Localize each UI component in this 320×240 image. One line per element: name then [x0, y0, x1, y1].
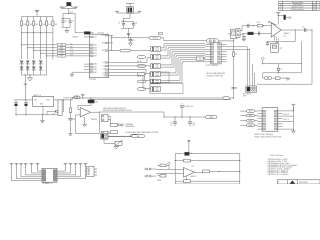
power flag U4 supply — [276, 11, 280, 13]
wire box riser 4 — [254, 73, 256, 86]
pin U1 right D2 — [109, 69, 114, 71]
wire U2 out riser 1 — [227, 47, 248, 86]
pin U6 right 9 — [278, 128, 283, 130]
power flag VCC top-left — [35, 9, 39, 11]
svg-text:10K: 10K — [48, 24, 51, 26]
resistor R4 10K — [40, 21, 42, 26]
ground U1 — [72, 72, 84, 74]
wire mid rail 1 — [263, 63, 302, 65]
wire crystal box top rail — [267, 40, 295, 42]
pin U2 right 11 — [221, 48, 227, 50]
power flag bottom-left 3 — [19, 162, 23, 164]
pin U1 right D1 — [109, 65, 114, 67]
wire net RXD to U1 — [27, 47, 28, 48]
pin U6 right 10 — [278, 126, 283, 128]
pin U2 left 4 — [205, 51, 211, 53]
IC U5 body — [42, 168, 57, 182]
pin U1 right OSC — [109, 50, 114, 52]
ground RV1 — [114, 147, 118, 149]
svg-text:RXD: RXD — [94, 47, 97, 49]
wire U7 feedback loop — [91, 111, 100, 113]
wire cap top rail — [61, 18, 70, 20]
resistor R14 — [184, 159, 191, 162]
svg-text:C4: C4 — [135, 22, 137, 24]
svg-text:CB0: CB0 — [94, 64, 97, 66]
svg-text:5V_REF: 5V_REF — [73, 96, 79, 98]
svg-text:D7: D7 — [53, 114, 55, 116]
svg-text:EXT OSC IN: EXT OSC IN — [243, 93, 251, 95]
pin U6 right 12 — [278, 120, 283, 122]
wire lower rail — [90, 99, 231, 101]
node label oval OSC — [120, 49, 131, 52]
title block bar — [277, 180, 320, 184]
svg-text:C5: C5 — [133, 40, 135, 42]
svg-text:9/07: 9/07 — [313, 9, 316, 11]
node label RXD — [58, 47, 66, 49]
wire R8 down — [233, 56, 235, 87]
pin U6 left 6 — [258, 123, 263, 125]
crystal Y2 OPT — [271, 43, 279, 52]
capacitor C1 100n — [62, 19, 64, 21]
wire column 3 — [33, 17, 35, 60]
wire U3 output — [195, 171, 203, 173]
svg-text:Revision Notes: Revision Notes — [292, 1, 304, 4]
wire FB2 stem down — [129, 13, 131, 18]
svg-text:10K: 10K — [29, 24, 32, 26]
svg-text:CTS: CTS — [94, 53, 97, 55]
svg-text:1K: 1K — [235, 54, 237, 56]
pin U1 left RTS — [84, 50, 89, 52]
ground C9 — [242, 39, 245, 41]
capacitor C9 to ground — [243, 33, 245, 36]
IC U8 regulator body — [33, 97, 54, 107]
wire riser 2 to U2 — [161, 46, 167, 50]
svg-text:U4: U4 — [284, 36, 286, 38]
pin U1 left CB3 — [84, 71, 89, 73]
svg-text:D5: D5 — [281, 69, 283, 71]
capacitor C14 polarized — [15, 100, 17, 103]
node label U2 left oval — [197, 57, 204, 60]
resistor R10 — [271, 77, 275, 79]
svg-text:CB2: CB2 — [94, 69, 97, 71]
power flag bottom-left 5 — [30, 162, 34, 164]
svg-text:RXD: RXD — [70, 46, 73, 48]
node label VCCIO oval — [149, 37, 161, 40]
svg-text:4/07: 4/07 — [313, 4, 316, 6]
wire output to frame right — [210, 170, 240, 172]
wire column 6 — [52, 17, 54, 60]
wire flag right 2 to U5 — [57, 164, 71, 173]
svg-text:OPT: OPT — [279, 48, 282, 50]
svg-text:10K: 10K — [35, 24, 38, 26]
wire R11 down — [70, 113, 72, 119]
wire flag right 4 to U5 — [57, 164, 80, 177]
pin U2 right 13 — [221, 53, 227, 55]
svg-text:SW_B: SW_B — [137, 76, 141, 78]
ferrite bead FB1 — [67, 2, 71, 5]
capacitor C13 — [276, 41, 278, 42]
logo mark — [290, 181, 296, 184]
svg-text:DNP: DNP — [243, 95, 246, 97]
diode D3 ESD pair — [32, 61, 36, 64]
ground filter caps — [66, 27, 68, 30]
capacitor C17 above rail — [181, 107, 183, 117]
resistor R11 — [69, 108, 71, 113]
pin U2 right 12 — [221, 51, 227, 53]
switch S5 — [151, 79, 161, 84]
resistor R1 10K — [21, 21, 23, 26]
connector J6 block — [87, 166, 95, 176]
ground C10 — [289, 16, 292, 19]
wire riser 8 to U2 — [161, 58, 179, 75]
wire U1 D0 to S2 — [113, 58, 151, 63]
svg-text:C19: C19 — [192, 123, 195, 125]
wire jumper to crystal chain — [219, 40, 234, 42]
power flag left of FB2 — [115, 10, 119, 12]
svg-text:FB4: FB4 — [95, 101, 98, 103]
svg-text:EN: EN — [199, 58, 201, 60]
pin U6 left 7 — [258, 126, 263, 128]
svg-text:R9 1K: R9 1K — [257, 22, 261, 24]
svg-text:REFERENCE: REFERENCE — [126, 126, 135, 128]
svg-text:VOUT_B: VOUT_B — [283, 119, 289, 121]
power flag U6 — [291, 103, 295, 105]
svg-text:U3: U3 — [192, 166, 194, 168]
node label oval SW5 — [138, 80, 146, 83]
pin U1 left CTS — [84, 52, 89, 54]
capacitor C11 on output — [304, 28, 306, 32]
pin U6 left 3 — [258, 115, 263, 117]
wire riser 5 to U2 — [161, 52, 173, 65]
svg-text:5V_REF_OUT: 5V_REF_OUT — [184, 106, 193, 108]
wire output right branch down — [311, 30, 313, 84]
svg-text:USBDM: USBDM — [73, 37, 79, 39]
capacitor C4 — [133, 21, 135, 23]
power flag bottom-right 3 — [74, 162, 78, 164]
node label oval in3 — [247, 119, 255, 122]
wire U6 in 3 — [240, 120, 257, 122]
pin U6 left 1 — [258, 110, 263, 112]
pin U6 right 16 — [278, 110, 283, 112]
svg-text:CTS#: CTS# — [70, 52, 74, 54]
wire U2 out riser 2 — [227, 49, 250, 86]
pin U1 left CB2 — [84, 69, 89, 71]
resistor R3 10K — [33, 21, 35, 26]
pin U2 left 6 — [205, 56, 211, 58]
pin U6 left 8 — [258, 128, 263, 130]
svg-text:C1: C1 — [65, 21, 67, 23]
connector J3 audio jack — [236, 29, 240, 38]
wire U1 D4 to S6 — [113, 75, 151, 88]
svg-text:C3: C3 — [118, 22, 120, 24]
switch S3 — [151, 64, 161, 69]
wire VCC branch to U1 — [74, 14, 76, 33]
wire riser 1 to U2 — [161, 44, 165, 48]
ground regulator — [41, 115, 43, 121]
node label oval J7 — [132, 135, 145, 138]
wire caps top rail — [121, 20, 134, 22]
switch S1 — [151, 47, 161, 52]
pin U1 left DTR — [84, 55, 89, 57]
svg-text:6/07: 6/07 — [313, 7, 316, 9]
power flag bottom-right 4 — [79, 162, 83, 164]
svg-text:DTR#: DTR# — [70, 54, 74, 56]
wire top-left bus — [22, 16, 53, 18]
wire riser 4 to U2 — [161, 50, 171, 58]
pin U2 right 15 — [221, 58, 227, 60]
wire VREF rail — [164, 116, 206, 118]
pin U2 right 10 — [221, 46, 227, 48]
diode D4 ESD pair — [39, 61, 43, 64]
svg-text:DTR: DTR — [94, 56, 97, 58]
capacitor C12 — [267, 41, 269, 42]
ferrite bead FB4 — [90, 97, 91, 98]
node label oval SW6 — [138, 88, 146, 91]
pin U6 right 13 — [278, 118, 283, 120]
svg-text:10K: 10K — [42, 24, 45, 26]
wire flag right 5 to U5 — [57, 164, 86, 179]
power flag bottom-right 2 — [69, 162, 73, 164]
wire loop switch5 — [150, 72, 169, 82]
svg-text:CB1: CB1 — [94, 66, 97, 68]
svg-text:DTR#: DTR# — [60, 56, 64, 58]
svg-text:C16: C16 — [73, 119, 76, 121]
wire FB2 bar — [117, 12, 140, 14]
wire bottom rail — [175, 180, 240, 182]
wire U1 D1 to S3 — [113, 65, 151, 67]
ground ESD array — [29, 75, 31, 78]
svg-text:3V3: 3V3 — [94, 37, 97, 39]
resistor R15 — [203, 170, 210, 173]
LED D6 — [262, 73, 264, 78]
pin U2 right 14 — [221, 56, 227, 58]
wire column 2 — [27, 17, 29, 60]
wire U6 out B — [282, 120, 293, 122]
wire net TXD to U1 — [21, 44, 22, 45]
wire U1 D3 to S5 — [113, 73, 151, 81]
wire U6 in 1 — [240, 110, 257, 112]
node label output oval — [71, 97, 74, 100]
node label TXD — [58, 44, 66, 46]
connector J7 input jack — [101, 133, 108, 139]
IC U2 body — [211, 43, 221, 64]
wire flag right 3 to U5 — [57, 164, 76, 175]
resistor R12 — [110, 124, 117, 127]
power flag 5V mid — [81, 93, 85, 95]
wire VCCIO rail — [111, 37, 149, 39]
wire U3 noninverting to bottom rail — [186, 176, 188, 181]
node diamond — [261, 57, 264, 60]
wire U6 gnd — [282, 128, 293, 130]
IC U6 body — [262, 108, 278, 132]
resistor R16 — [184, 180, 191, 183]
ground U6 — [292, 129, 294, 131]
svg-text:OSC: OSC — [102, 50, 105, 52]
pin U1 right RST — [109, 42, 114, 44]
capacitor C20 on frame top — [185, 152, 190, 155]
pin U6 right 11 — [278, 123, 283, 125]
wire bottom-right return — [257, 83, 312, 85]
wire U6 in 4 — [240, 124, 257, 126]
wire riser 9 to U2 — [161, 60, 181, 81]
pin U2 right 16 — [221, 61, 227, 63]
svg-text:1uF: 1uF — [170, 125, 172, 127]
capacitor C5 below rail — [130, 38, 132, 40]
wire J7 to oval — [108, 135, 132, 137]
resistor R2 10K — [27, 21, 29, 26]
svg-text:D0: D0 — [103, 62, 105, 64]
switch S6 — [151, 87, 161, 92]
capacitor C18 below rail — [174, 117, 176, 122]
svg-text:VCC: VCC — [102, 35, 105, 37]
node label RTS# — [58, 49, 66, 51]
wire RV1 to ground — [116, 145, 118, 146]
power flag bottom-right 5 — [84, 162, 88, 164]
node label oval in1 — [247, 110, 255, 113]
node label oval SW2 — [138, 56, 146, 59]
ground flag above frame — [187, 140, 190, 142]
svg-text:CB3: CB3 — [94, 72, 97, 74]
svg-text:10K: 10K — [55, 24, 58, 26]
wire J5 to oval — [110, 136, 130, 138]
wire jog to caps — [124, 18, 131, 21]
connector J2 block — [246, 86, 257, 92]
pin U2 left 3 — [205, 48, 211, 50]
pin U1 right D0 — [109, 61, 114, 63]
wire flag 6 to U5 — [38, 164, 43, 171]
pin U2 right 9 — [221, 43, 227, 45]
svg-text:SCLK: SCLK — [249, 111, 253, 113]
diode D1 ESD pair — [20, 61, 24, 64]
node diamond audio — [168, 162, 171, 165]
node label oval in4 — [247, 124, 255, 127]
op-amp U3 — [184, 168, 195, 178]
op-amp U7 REF buffer — [80, 108, 90, 118]
ground C16 — [69, 134, 73, 136]
svg-text:TXD: TXD — [70, 43, 73, 45]
svg-text:GND: GND — [40, 103, 43, 105]
node label oval in2 — [247, 114, 255, 117]
resistor R6 10K — [52, 21, 54, 26]
power flag bottom-left 6 — [36, 162, 40, 164]
svg-text:OUTPUT DRIVER: OUTPUT DRIVER — [206, 65, 219, 67]
resistor R9 series — [257, 25, 262, 27]
pin U6 left 5 — [258, 120, 263, 122]
power flag bottom-left 4 — [24, 162, 28, 164]
svg-text:D2: D2 — [103, 69, 105, 71]
ground arrow C5 — [129, 43, 133, 46]
svg-text:D4: D4 — [103, 75, 105, 77]
ferrite bead FB3 on plus line — [248, 32, 254, 35]
wire flag 3 to U5 — [21, 164, 42, 177]
ground arrow right — [286, 78, 290, 80]
varistor RV1 — [115, 141, 122, 145]
capacitor C8 on plus line — [258, 32, 260, 36]
wire 5V branch down — [70, 100, 72, 108]
resistor R18 input lower — [160, 174, 166, 177]
pin U1 right D3 — [109, 72, 114, 74]
power flag VBUS top — [126, 3, 134, 5]
pin U1 left TXD — [84, 44, 89, 46]
power flag bottom-left 2 — [15, 162, 19, 164]
ground U7 — [84, 117, 86, 125]
wire U1 OSC to S1 with label — [111, 50, 120, 52]
pin U1 right VCC — [109, 34, 114, 36]
capacitor C16 — [68, 118, 72, 120]
svg-text:5V_REG: 5V_REG — [63, 98, 70, 100]
svg-text:VOUT: VOUT — [46, 100, 50, 102]
connector J4 — [102, 114, 109, 121]
wire to ground arrow — [280, 77, 288, 79]
svg-text:RTS#: RTS# — [70, 49, 74, 51]
wire jog down — [163, 112, 165, 117]
pin U1 right D4 — [109, 74, 114, 76]
svg-text:TXD USB: TXD USB — [98, 33, 104, 35]
wire regulator input — [14, 99, 33, 101]
power flag right of FB2 — [138, 10, 142, 12]
ferrite bead FB2 — [127, 7, 134, 14]
wire row crossing bus — [22, 32, 53, 34]
wire to caps — [63, 13, 75, 15]
wire ESD bottom rail — [22, 74, 47, 76]
wire U1 VCC to rail — [111, 35, 113, 50]
power flag left of FB1 — [60, 6, 63, 8]
resistor R17 input upper — [160, 164, 166, 167]
wire diode branch — [63, 100, 65, 112]
switch S4 — [151, 72, 161, 77]
wire output branch down — [294, 30, 296, 41]
wire box riser 3 — [252, 64, 254, 86]
svg-text:0.1uF: 0.1uF — [192, 125, 196, 127]
resistor R13 — [109, 131, 111, 134]
wire U6 VDD — [282, 106, 293, 111]
node label oval SW4 — [138, 73, 146, 76]
wire VBUS down to regulator — [25, 74, 26, 75]
svg-text:C6: C6 — [236, 88, 238, 90]
IC U1 FT232RL body — [89, 34, 108, 77]
connector J5 — [102, 131, 109, 138]
svg-text:TPS767D301: TPS767D301 — [42, 183, 51, 184]
capacitor C15 polarized — [25, 100, 27, 103]
wire U4 output — [281, 29, 312, 31]
capacitor C7 on minus line — [247, 24, 249, 28]
op-amp U4 — [271, 23, 281, 37]
node label CTS# — [58, 52, 66, 54]
power flag right of FB1 — [75, 6, 78, 8]
wire riser 6 to U2 — [161, 54, 175, 67]
wire second rail — [175, 160, 240, 162]
wire net RTS# to U1 — [33, 50, 34, 51]
wire riser 10 to U2 — [161, 62, 183, 83]
wire U3 inputs — [156, 168, 184, 170]
capacitor C10 supply bypass — [278, 15, 284, 17]
wire J3 top to opamp minus — [240, 26, 271, 31]
wire column 5 — [46, 17, 48, 60]
resistor R8 — [233, 52, 235, 56]
svg-text:D3: D3 — [103, 72, 105, 74]
pin U1 left CB0 — [84, 63, 89, 65]
node flag VBUS — [24, 83, 27, 85]
pin U2 left 2 — [205, 46, 211, 48]
ground arrow cluster2 — [128, 28, 130, 33]
diode pair D8 — [119, 124, 121, 126]
wire loop switch6 — [150, 83, 183, 93]
wire U6 in 2 — [240, 115, 257, 117]
svg-text:D1: D1 — [103, 66, 105, 68]
wire drop into U2 — [208, 42, 210, 44]
wire right edge of box — [300, 41, 302, 73]
svg-text:TXD: TXD — [94, 44, 97, 46]
